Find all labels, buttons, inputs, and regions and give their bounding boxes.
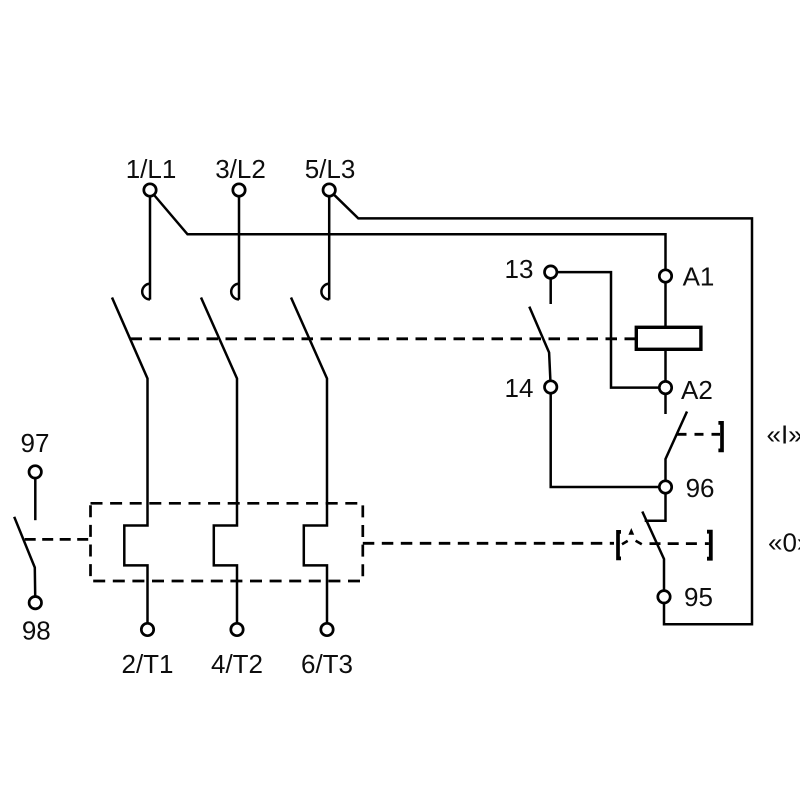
contactor coil K1 (636, 327, 701, 349)
wire from 13 to coil terminal A2 (551, 272, 666, 388)
wire from 14 to terminal 96 (551, 387, 666, 487)
pole 2 upper conductor (238, 190, 241, 300)
terminal 4/T2 circle (231, 623, 243, 635)
svg-text:2/T1: 2/T1 (121, 649, 173, 679)
svg-text:3/L2: 3/L2 (215, 154, 266, 184)
terminal 98 circle (29, 597, 41, 609)
stop button actuator stem (705, 542, 709, 545)
terminal 5/L3 circle (323, 184, 335, 196)
svg-text:5/L3: 5/L3 (305, 154, 356, 184)
terminal 3/L2 circle (233, 184, 245, 196)
start button actuator bracket (718, 423, 722, 451)
stop linkage (dashed) (650, 542, 698, 545)
svg-text:4/T2: 4/T2 (211, 649, 263, 679)
svg-text:95: 95 (684, 582, 713, 612)
overload trip arrow head (628, 528, 634, 535)
svg-text:«0»: «0» (768, 528, 800, 558)
pole 3 upper conductor (328, 190, 331, 300)
pole 1 fixed contact arc (142, 284, 150, 300)
terminal 96 circle (659, 481, 671, 493)
terminal 13 circle (545, 266, 557, 278)
wire from 1/L1 to coil terminal A1 (155, 196, 666, 277)
stop/overload NC contact blade (642, 512, 664, 597)
aux NO contact 13-14 blade (529, 307, 550, 387)
overload trip arrow right dashed side (636, 541, 642, 545)
start button NO blade (666, 412, 688, 488)
terminal 2/T1 circle (141, 623, 153, 635)
overload trip linkage from box to stop contact (dashed) (363, 542, 614, 545)
contactor mechanical linkage (dashed) (131, 337, 637, 340)
pole 1 upper conductor (149, 190, 152, 300)
aux NO contact 13-14 fixed stub (549, 279, 552, 304)
stop/overload NC contact stub (645, 487, 666, 521)
terminal 95 circle (658, 591, 670, 603)
overload trip linkage to 97-98 contact (dashed) (25, 538, 90, 541)
terminal 6/T3 circle (321, 623, 333, 635)
terminal 14 circle (545, 381, 557, 393)
svg-text:1/L1: 1/L1 (126, 154, 177, 184)
svg-text:6/T3: 6/T3 (301, 649, 353, 679)
terminal 1/L1 circle (144, 184, 156, 196)
wire from 5/L3 to right rail down to terminal 95 (334, 195, 752, 625)
svg-text:«I»: «I» (767, 420, 800, 450)
svg-text:14: 14 (505, 373, 534, 403)
pole 2 fixed contact arc (231, 284, 239, 300)
overload trip arrow left dashed side (622, 541, 628, 544)
terminal A1 circle (659, 270, 671, 282)
overload trip bracket (618, 532, 621, 559)
start button stub from A2 (664, 388, 667, 414)
pole 3 fixed contact arc (321, 284, 329, 300)
svg-text:97: 97 (21, 428, 50, 458)
thermal overload relay box (dashed) (91, 503, 363, 581)
pole 1 moving contact blade and lower conductor with heater detour (112, 298, 148, 630)
wire A1 to coil (664, 276, 667, 326)
terminal 97 circle (29, 466, 41, 478)
terminal A2 circle (659, 381, 671, 393)
overload NO contact 97-98 fixed stub (34, 472, 37, 520)
stop button actuator bracket (707, 532, 711, 559)
svg-text:13: 13 (505, 254, 534, 284)
svg-text:A1: A1 (683, 262, 715, 292)
svg-text:98: 98 (22, 616, 51, 646)
pole 3 moving contact blade and lower conductor with heater detour (291, 298, 327, 630)
wire coil to A2 (664, 349, 667, 388)
svg-text:96: 96 (686, 473, 715, 503)
pole 2 moving contact blade and lower conductor with heater detour (201, 298, 237, 630)
start button linkage (dashed) (678, 433, 721, 436)
overload NO contact 97-98 blade (14, 517, 35, 603)
svg-text:A2: A2 (681, 375, 713, 405)
